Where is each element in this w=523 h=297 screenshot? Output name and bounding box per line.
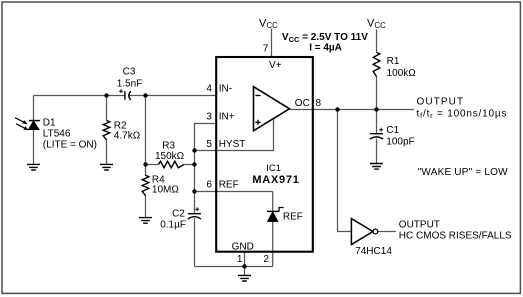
- svg-text:C3: C3: [123, 67, 136, 78]
- svg-text:REF: REF: [219, 180, 239, 191]
- svg-text:74HC14: 74HC14: [355, 246, 392, 257]
- svg-text:6: 6: [206, 180, 212, 191]
- svg-text:IN-: IN-: [219, 84, 232, 95]
- svg-text:4.7kΩ: 4.7kΩ: [114, 130, 141, 141]
- svg-text:LT546: LT546: [43, 129, 71, 140]
- svg-text:1.5nF: 1.5nF: [117, 79, 143, 90]
- svg-text:2: 2: [263, 254, 269, 265]
- svg-text:10MΩ: 10MΩ: [152, 184, 179, 195]
- svg-text:C1: C1: [386, 125, 399, 136]
- svg-text:OUTPUT: OUTPUT: [417, 97, 465, 108]
- svg-text:OC: OC: [295, 98, 310, 109]
- svg-text:REF: REF: [283, 211, 303, 222]
- svg-text:I = 4µA: I = 4µA: [309, 43, 342, 54]
- svg-text:7: 7: [263, 44, 269, 55]
- svg-text:1: 1: [237, 254, 243, 265]
- svg-text:8: 8: [316, 98, 322, 109]
- svg-text:"WAKE UP" = LOW: "WAKE UP" = LOW: [418, 167, 508, 178]
- svg-text:5: 5: [206, 139, 212, 150]
- svg-text:C2: C2: [172, 208, 185, 219]
- svg-text:IN+: IN+: [219, 112, 235, 123]
- svg-text:GND: GND: [232, 241, 254, 252]
- svg-text:100kΩ: 100kΩ: [387, 68, 417, 79]
- svg-text:D1: D1: [43, 117, 56, 128]
- svg-text:MAX971: MAX971: [252, 174, 299, 186]
- svg-text:HC CMOS RISES/FALLS: HC CMOS RISES/FALLS: [399, 230, 512, 241]
- svg-text:100pF: 100pF: [386, 136, 414, 147]
- svg-text:4: 4: [206, 84, 212, 95]
- svg-text:HYST: HYST: [219, 139, 246, 150]
- svg-text:IC1: IC1: [266, 163, 281, 174]
- svg-text:150kΩ: 150kΩ: [155, 151, 185, 162]
- svg-text:R1: R1: [387, 56, 400, 67]
- svg-text:tf/tr = 100ns/10µs: tf/tr = 100ns/10µs: [417, 108, 508, 120]
- svg-text:0.1µF: 0.1µF: [160, 219, 186, 230]
- svg-text:3: 3: [206, 112, 212, 123]
- svg-text:OUTPUT: OUTPUT: [399, 220, 440, 231]
- svg-text:V+: V+: [269, 60, 282, 71]
- svg-text:(LITE = ON): (LITE = ON): [43, 140, 97, 151]
